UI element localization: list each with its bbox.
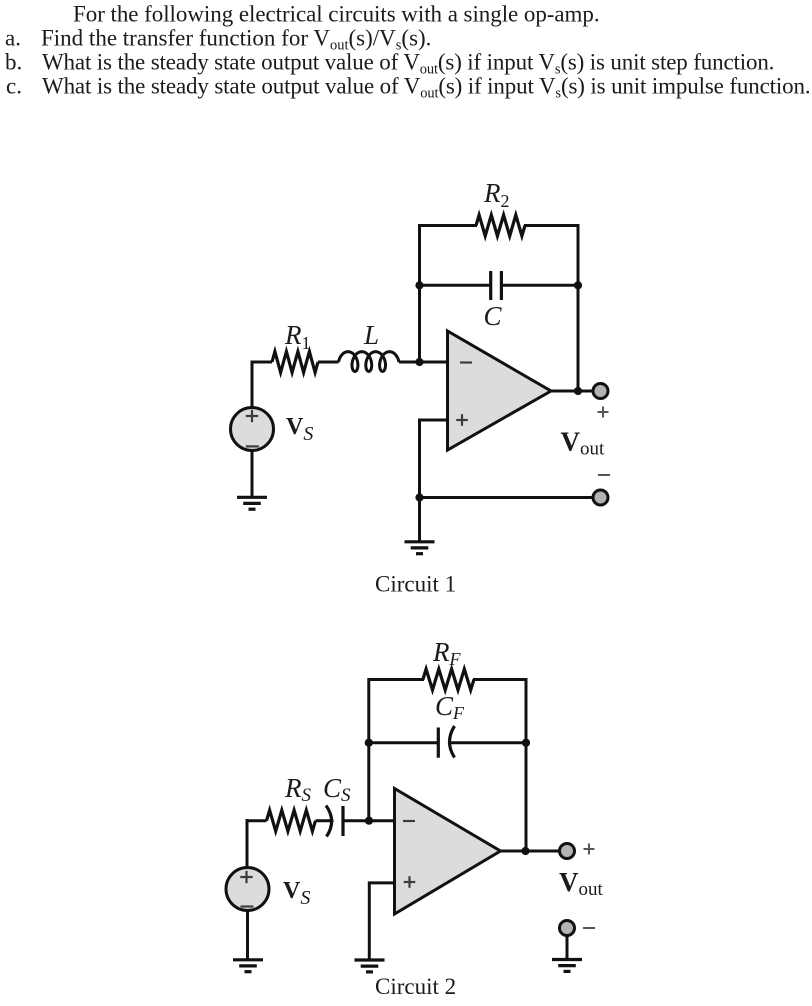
wire: CF branch left segment [369, 741, 439, 744]
capacitor CS straight plate [341, 806, 344, 836]
ground source 2 [233, 960, 263, 972]
node: output junction [574, 387, 582, 395]
capacitor CS curved plate [326, 806, 332, 837]
ground op-amp 1 reference [405, 542, 435, 554]
node: inverting input junction [415, 358, 423, 366]
wire: RF branch right segment + feedback right vertical 2 [473, 680, 526, 852]
resistor R1 [272, 352, 318, 373]
svg-text:R2: R2 [483, 178, 510, 211]
resistor RF [423, 669, 474, 690]
wire: L to op-amp inverting input [399, 361, 448, 364]
svg-text:Circuit 2: Circuit 2 [375, 974, 456, 999]
op-amp U2 non-inverting mark [404, 881, 416, 883]
svg-text:c.: c. [6, 74, 22, 99]
svg-text:For the following electrical c: For the following electrical circuits wi… [73, 2, 600, 27]
svg-text:RF: RF [432, 637, 462, 669]
svg-text:Circuit 1: Circuit 1 [375, 572, 456, 597]
node: C branch right junction [574, 281, 582, 289]
wire: Vs2 top lead [246, 819, 249, 868]
capacitor CF curved plate [450, 726, 455, 758]
wire: feedback left vertical [420, 226, 478, 363]
svg-text:a.: a. [5, 26, 21, 51]
svg-text:C: C [484, 301, 503, 331]
label + output 1 [598, 411, 609, 413]
terminal: Vout + [593, 384, 608, 399]
wire: ground stem [418, 498, 421, 542]
label - output 1 [598, 474, 610, 476]
wire: Vs top lead [251, 361, 254, 408]
ground output reference [552, 960, 582, 972]
wire: non-inverting input L bend [420, 420, 448, 498]
source VS circuit 2 [226, 868, 269, 911]
terminal: Vout - circuit 2 [560, 921, 575, 936]
inductor L [339, 352, 400, 372]
svg-text:VS: VS [286, 414, 313, 445]
wire: op-amp 2 output [501, 850, 561, 853]
svg-text:CF: CF [435, 691, 465, 723]
wire: CS to inverting input [343, 819, 395, 822]
svg-text:RS: RS [284, 773, 312, 806]
op-amp U1 [448, 331, 552, 450]
wire: Vs bottom lead [251, 451, 254, 498]
resistor R2 [476, 215, 525, 236]
svg-text:VS: VS [283, 878, 310, 909]
node: output junction 2 [521, 847, 529, 855]
ground source 1 [237, 497, 267, 509]
wire: R1 to L [318, 361, 339, 364]
terminal: Vout + circuit 2 [560, 844, 575, 859]
svg-text:b.: b. [5, 50, 22, 75]
node: CF branch left junction [365, 739, 373, 747]
op-amp U2 inverting mark [403, 820, 415, 822]
wire: Vs2 bottom lead [246, 911, 249, 960]
wire: R2 branch right segment + feedback right vertical [524, 226, 578, 392]
svg-text:What is the steady state outpu: What is the steady state output value of… [42, 74, 811, 102]
wire: feedback left vertical 2 [369, 680, 424, 821]
wire: RS to CS [316, 819, 334, 822]
wire: op-amp output [551, 390, 594, 393]
capacitor C [489, 271, 492, 300]
wire: C branch right segment [501, 284, 578, 287]
terminal: Vout - [593, 490, 608, 505]
node: CF branch right junction [522, 739, 530, 747]
svg-text:R1: R1 [284, 320, 311, 353]
wire: bottom output [420, 496, 594, 499]
node: inverting input junction 2 [365, 817, 373, 825]
label - output 2 [583, 927, 595, 929]
wire: CF branch right segment [450, 741, 526, 744]
label + output 2 [584, 848, 595, 850]
svg-text:Vout: Vout [561, 427, 606, 460]
op-amp U1 non-inverting mark [456, 419, 468, 421]
op-amp U1 inverting mark [460, 361, 472, 363]
wire: input horizontal Vs to R1 [251, 361, 273, 364]
svg-text:CS: CS [323, 773, 351, 806]
resistor RS [267, 810, 316, 831]
source VS circuit 1 [231, 408, 274, 451]
node: C branch left junction [415, 281, 423, 289]
wire: terminal to ground stem [566, 935, 569, 960]
wire: non-inverting input bend 2 [369, 883, 394, 960]
capacitor CF straight plate [437, 728, 440, 758]
wire: C branch left segment [420, 284, 491, 287]
svg-text:Vout: Vout [559, 867, 604, 900]
node: ground junction [415, 493, 423, 501]
wire: input horizontal Vs to RS [247, 819, 267, 822]
svg-text:L: L [363, 320, 379, 350]
op-amp U2 [395, 789, 501, 915]
ground op-amp 2 reference [355, 960, 385, 972]
